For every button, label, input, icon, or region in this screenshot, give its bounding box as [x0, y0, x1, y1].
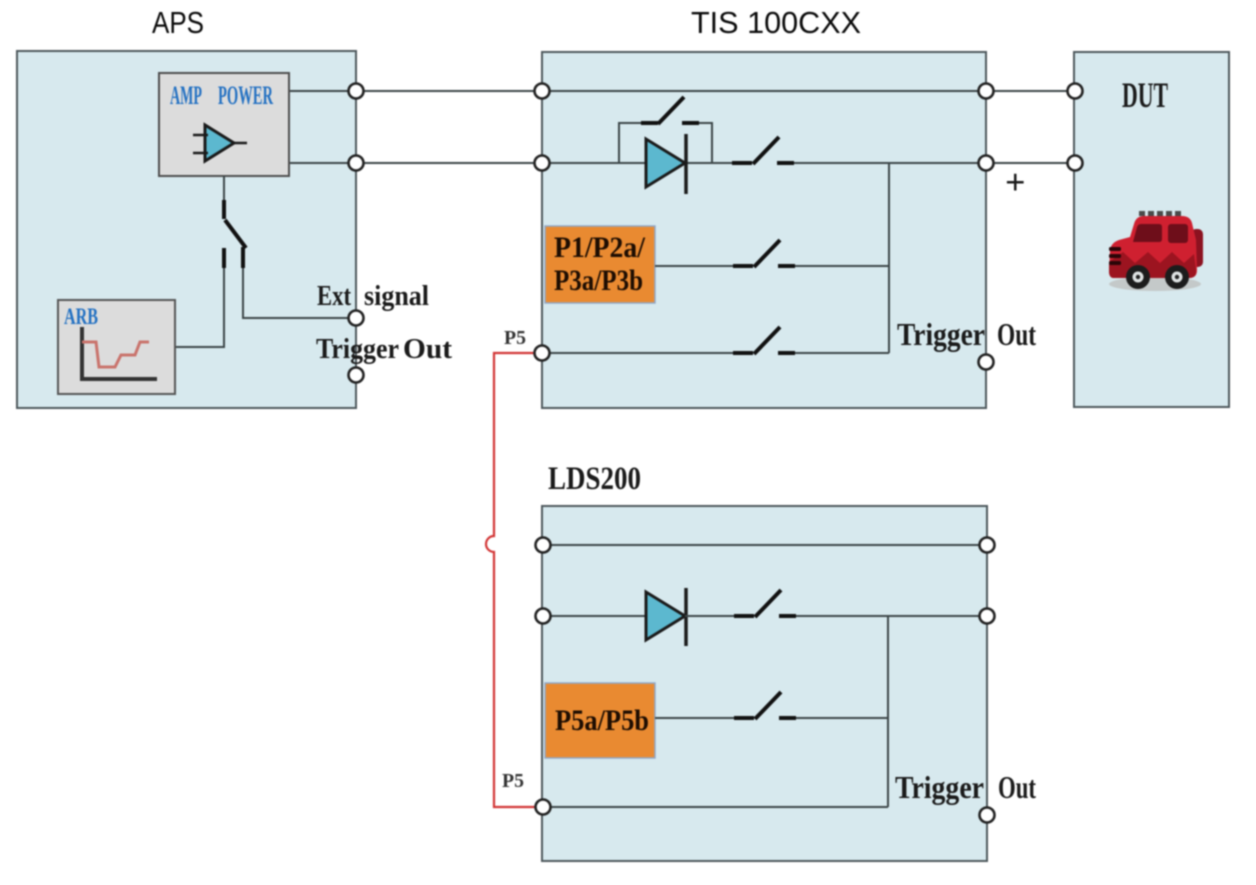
wire row3 TIS left [655, 265, 733, 267]
ARB waveform [82, 342, 149, 367]
ARB axes [82, 327, 157, 379]
sub-block ARB [58, 300, 175, 394]
svg-text:AMP: AMP [170, 81, 202, 110]
terminal LDS left row1 [536, 538, 551, 553]
wire row1 APS to DUT [289, 90, 1075, 92]
switch S4 (TIS row3) [733, 240, 795, 267]
wire row3 LDS right [796, 717, 888, 719]
wire red P5 link [486, 353, 535, 807]
svg-text:DUT: DUT [1122, 75, 1168, 115]
terminal LDS right row1 [980, 538, 995, 553]
sub-block AMP POWER [159, 73, 289, 176]
terminal TIS right row2 [979, 156, 994, 171]
wire row1 LDS [543, 544, 987, 546]
svg-text:Trigger: Trigger [897, 316, 985, 352]
svg-text:P5: P5 [502, 770, 524, 792]
svg-text:signal: signal [364, 280, 429, 312]
svg-text:P1/P2a/: P1/P2a/ [554, 231, 646, 264]
wire row2 LDS right [796, 615, 987, 617]
DUT car icon [1109, 211, 1203, 291]
switch S1 (APS source select) [224, 200, 246, 268]
op-amp symbol [193, 125, 247, 161]
wire S1 to Ext signal [243, 268, 348, 318]
block TIS 100CXX [542, 52, 986, 408]
wire row2 APS to diode [289, 162, 646, 164]
svg-text:Trigger: Trigger [316, 333, 399, 365]
bypass wire around D1 [619, 123, 641, 163]
switch S6 (LDS row2) [734, 590, 796, 617]
diode D1 (TIS) [646, 134, 686, 194]
terminal APS Ext signal [349, 311, 364, 326]
terminal TIS Trigger Out [979, 355, 994, 370]
bypass wire right [699, 123, 712, 163]
switch S2 (bypass) [641, 97, 699, 124]
orange box P1/P2a/P3a/P3b [545, 226, 655, 303]
svg-text:Trigger: Trigger [895, 769, 984, 805]
wire row4 TIS right [795, 352, 889, 354]
terminal TIS P5 [535, 346, 550, 361]
wire branch LDS vertical [887, 616, 889, 807]
wire row2 diode to switch [686, 162, 733, 164]
terminal APS row2 [349, 156, 364, 171]
svg-text:P5a/P5b: P5a/P5b [555, 704, 649, 737]
wire AMP POWER to switch S1 [223, 176, 225, 202]
svg-text:ARB: ARB [64, 304, 98, 329]
terminal DUT row1 [1068, 84, 1083, 99]
svg-text:APS: APS [152, 5, 204, 40]
svg-text:LDS200: LDS200 [548, 461, 641, 497]
svg-text:Out: Out [403, 333, 452, 365]
wire row3 TIS right [795, 265, 889, 267]
block APS [17, 51, 356, 408]
svg-text:Ext: Ext [317, 280, 351, 312]
switch S7 (LDS row3) [734, 692, 796, 719]
switch S5 (TIS row4) [733, 327, 795, 354]
wire branch TIS vertical [888, 163, 890, 353]
terminal LDS Trigger Out [980, 808, 995, 823]
terminal TIS left row1 [535, 84, 550, 99]
terminal APS row1 [349, 84, 364, 99]
svg-text:+: + [1005, 162, 1026, 202]
terminal TIS left row2 [535, 156, 550, 171]
wire row2 switch to DUT [793, 162, 1075, 164]
svg-text:P3a/P3b: P3a/P3b [554, 264, 643, 297]
block LDS200 [542, 506, 987, 861]
terminal LDS P5 [536, 800, 551, 815]
svg-text:TIS 100CXX: TIS 100CXX [691, 5, 861, 40]
terminal TIS right row1 [979, 84, 994, 99]
wire row3 LDS left [655, 717, 734, 719]
terminal LDS right row2 [980, 609, 995, 624]
svg-text:POWER: POWER [218, 81, 273, 110]
wire row4 TIS left [542, 352, 733, 354]
block DUT [1074, 52, 1229, 407]
wire row4 LDS [543, 806, 888, 808]
switch S3 (TIS row2) [732, 137, 794, 164]
diode D2 (LDS) [646, 588, 686, 646]
terminal APS Trigger Out [349, 368, 364, 383]
svg-text:Out: Out [997, 316, 1036, 352]
orange box P5a/P5b [545, 683, 655, 758]
terminal DUT row2 [1068, 156, 1083, 171]
svg-text:P5: P5 [504, 327, 526, 349]
wire row2 LDS mid [685, 615, 734, 617]
terminal LDS left row2 [536, 609, 551, 624]
svg-text:Out: Out [998, 769, 1036, 805]
wire S1 to ARB [176, 268, 224, 347]
wire row2 LDS left [543, 615, 646, 617]
